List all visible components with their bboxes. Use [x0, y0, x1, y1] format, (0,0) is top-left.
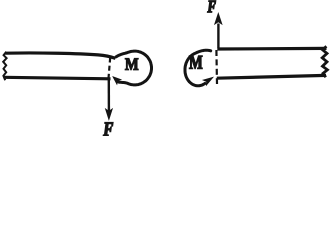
left section cut dashed line [108, 58, 110, 83]
right beam cut (jagged break) [322, 46, 327, 77]
moment arrow M right (arc) [185, 50, 211, 86]
moment arrow M right (head) [203, 77, 213, 85]
label F right [208, 1, 216, 13]
force arrow F left (shaft) [108, 80, 110, 112]
force arrow F left (head) [106, 109, 113, 120]
label F left [103, 123, 113, 136]
right beam bottom flange [217, 75, 326, 78]
left beam cut (jagged break) [3, 52, 6, 80]
label M right [189, 56, 202, 69]
right beam top flange [217, 47, 326, 51]
left beam top flange [6, 53, 116, 58]
left beam bottom flange [4, 77, 111, 79]
moment arrow M left (arc) [116, 51, 151, 85]
force arrow F right (shaft) [217, 24, 219, 48]
force arrow F right (head) [215, 13, 222, 24]
moment arrow M left (head) [113, 77, 121, 84]
right section cut dashed line [215, 50, 218, 84]
label M left [125, 58, 138, 69]
